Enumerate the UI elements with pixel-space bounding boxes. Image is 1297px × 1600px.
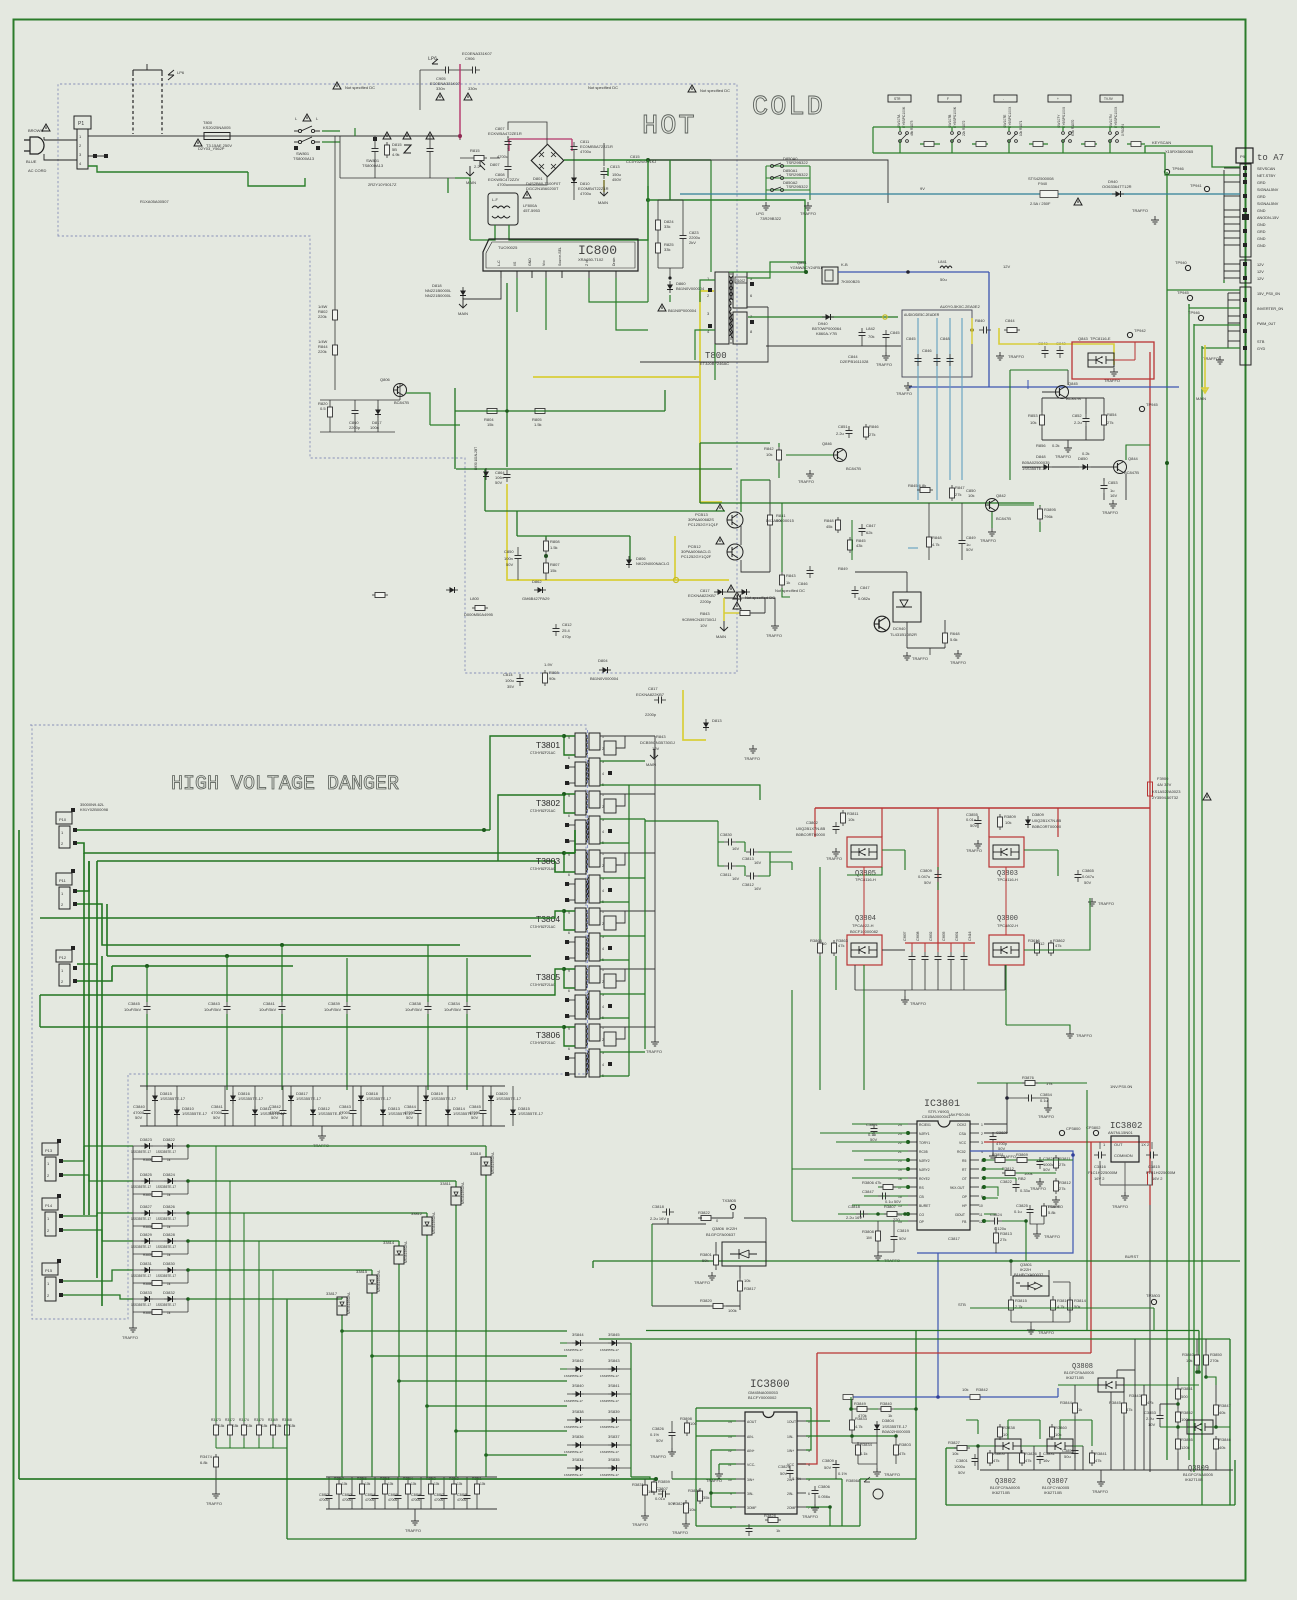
svg-text:GND: GND <box>1257 223 1266 227</box>
svg-text:C3835: C3835 <box>942 931 946 941</box>
svg-text:33815: 33815 <box>356 1269 368 1274</box>
svg-text:Q845: Q845 <box>1068 381 1079 386</box>
svg-text:33k: 33k <box>664 247 670 252</box>
svg-text:D848: D848 <box>1036 454 1046 459</box>
svg-text:P1: P1 <box>78 121 84 127</box>
svg-text:LP6: LP6 <box>177 70 185 75</box>
svg-text:NK22N000NACLG: NK22N000NACLG <box>636 561 669 566</box>
svg-text:TRAFFO: TRAFFO <box>632 1522 648 1527</box>
svg-text:1k: 1k <box>776 1528 780 1533</box>
svg-text:Vcc: Vcc <box>542 260 546 266</box>
svg-text:15k: 15k <box>247 1424 253 1428</box>
svg-text:R3807: R3807 <box>884 1204 897 1209</box>
svg-text:4700u: 4700u <box>411 1498 420 1502</box>
svg-text:TP941: TP941 <box>1190 183 1203 188</box>
svg-text:OUT: OUT <box>1114 1142 1123 1147</box>
svg-text:3S834: 3S834 <box>572 1457 584 1462</box>
svg-text:C814: C814 <box>503 672 513 677</box>
svg-text:50V: 50V <box>924 880 931 885</box>
svg-text:R3842: R3842 <box>976 1387 989 1392</box>
svg-text:R849: R849 <box>838 566 848 571</box>
svg-text:27k: 27k <box>1059 1186 1065 1191</box>
svg-text:HP: HP <box>962 1204 967 1208</box>
svg-text:MS3815S02VL: MS3815S02VL <box>491 1152 495 1174</box>
svg-text:GND: GND <box>1257 244 1266 248</box>
svg-text:PC1252GY1Q2F: PC1252GY1Q2F <box>681 554 712 559</box>
svg-text:AU0Y0-5K0C.2EA0E2: AU0Y0-5K0C.2EA0E2 <box>940 304 981 309</box>
svg-text:TPC8116-E: TPC8116-E <box>1090 336 1111 341</box>
svg-text:10k: 10k <box>388 1482 394 1486</box>
svg-text:120k: 120k <box>1181 1445 1190 1450</box>
svg-text:R847: R847 <box>955 485 965 490</box>
svg-text:27k: 27k <box>869 432 875 437</box>
svg-text:Drain: Drain <box>612 258 616 266</box>
svg-text:3OMF: 3OMF <box>747 1506 756 1510</box>
svg-text:TRAFFO: TRAFFO <box>1055 454 1071 459</box>
svg-text:T3806: T3806 <box>536 1030 560 1040</box>
svg-text:10k: 10k <box>342 1482 348 1486</box>
svg-text:DGC2N1B60200T: DGC2N1B60200T <box>526 186 559 191</box>
svg-text:1SS355TE-17: 1SS355TE-17 <box>366 1096 392 1101</box>
svg-text:ECKNA822KB7: ECKNA822KB7 <box>688 593 717 598</box>
svg-text:4700u: 4700u <box>497 182 508 187</box>
svg-text:10k: 10k <box>365 1482 371 1486</box>
svg-text:1SS355TE-17: 1SS355TE-17 <box>131 1150 151 1154</box>
svg-text:Q3806: Q3806 <box>712 1226 725 1231</box>
svg-text:25.4: 25.4 <box>562 628 571 633</box>
svg-text:45T-5953: 45T-5953 <box>523 208 541 213</box>
svg-text:R3813: R3813 <box>1000 1231 1013 1236</box>
svg-text:TRAFFO: TRAFFO <box>672 1530 688 1535</box>
svg-text:4: 4 <box>602 1005 604 1009</box>
svg-text:3S845: 3S845 <box>608 1332 620 1337</box>
svg-text:43k: 43k <box>856 543 862 548</box>
svg-text:C847: C847 <box>860 585 870 590</box>
svg-text:9CB99CN35730GJ: 9CB99CN35730GJ <box>682 617 716 622</box>
svg-text:R848: R848 <box>824 518 834 523</box>
svg-text:TRAFFO: TRAFFO <box>800 211 816 216</box>
svg-text:4700u: 4700u <box>580 191 591 196</box>
svg-text:PC1252GY1Q1F: PC1252GY1Q1F <box>688 522 719 527</box>
svg-text:Not specified DC: Not specified DC <box>700 88 730 93</box>
svg-text:C3865: C3865 <box>1082 868 1095 873</box>
svg-text:TPC8802-H: TPC8802-H <box>997 923 1018 928</box>
svg-text:10k: 10k <box>1005 820 1011 825</box>
svg-text:Not specified DC: Not specified DC <box>588 85 618 90</box>
svg-text:9V: 9V <box>920 186 925 191</box>
svg-text:10k: 10k <box>1186 1358 1192 1363</box>
svg-text:Z in: Z in <box>585 260 589 266</box>
svg-text:10k: 10k <box>411 1482 417 1486</box>
svg-text:R3828: R3828 <box>764 1513 777 1518</box>
svg-text:3S838: 3S838 <box>572 1409 584 1414</box>
svg-text:IK22H: IK22H <box>726 1226 737 1231</box>
svg-text:100n: 100n <box>370 425 379 430</box>
svg-text:4A/ 32V: 4A/ 32V <box>1157 782 1172 787</box>
svg-text:C3837: C3837 <box>903 931 907 941</box>
svg-text:47k: 47k <box>993 1458 999 1463</box>
svg-text:50u: 50u <box>1064 1454 1071 1459</box>
svg-text:33810: 33810 <box>470 1151 482 1156</box>
svg-text:P14: P14 <box>45 1203 53 1208</box>
svg-text:TRAFFO: TRAFFO <box>802 1514 818 1519</box>
svg-text:C3831: C3831 <box>1043 1451 1056 1456</box>
svg-text:T3804: T3804 <box>536 914 560 924</box>
svg-text:D3822: D3822 <box>163 1137 176 1142</box>
svg-text:TRAFFO: TRAFFO <box>1102 510 1118 515</box>
svg-text:L-C: L-C <box>497 260 501 266</box>
svg-text:Not specified DC: Not specified DC <box>745 595 775 600</box>
svg-text:D830 101N-2BT: D830 101N-2BT <box>474 447 478 470</box>
svg-text:SW107B: SW107B <box>948 114 952 128</box>
svg-text:AOUT: AOUT <box>747 1420 756 1424</box>
svg-text:Source-SEL: Source-SEL <box>558 247 562 266</box>
svg-text:1SS355TE-17: 1SS355TE-17 <box>156 1245 176 1249</box>
svg-text:73R29B322: 73R29B322 <box>760 216 782 221</box>
svg-text:0.33u: 0.33u <box>1020 1188 1030 1193</box>
svg-text:40k: 40k <box>1219 1445 1225 1450</box>
svg-text:11: 11 <box>979 1213 983 1217</box>
svg-text:15k: 15k <box>276 1424 282 1428</box>
svg-text:R3801: R3801 <box>700 1252 713 1257</box>
svg-text:6: 6 <box>808 1492 810 1496</box>
svg-text:CTJHY8ZF21AC: CTJHY8ZF21AC <box>530 925 556 929</box>
svg-text:R3895: R3895 <box>1044 507 1057 512</box>
svg-text:1SS355TE-17: 1SS355TE-17 <box>131 1185 151 1189</box>
svg-text:3S839: 3S839 <box>608 1409 620 1414</box>
svg-text:6.8k R1070: 6.8k R1070 <box>1071 119 1075 136</box>
svg-text:B0A02H000005: B0A02H000005 <box>882 1429 911 1434</box>
svg-text:1SS355TE-17: 1SS355TE-17 <box>131 1274 151 1278</box>
svg-text:6.8k: 6.8k <box>200 1460 208 1465</box>
svg-text:OP: OP <box>962 1195 968 1199</box>
svg-text:C3807: C3807 <box>656 1486 669 1491</box>
svg-text:R848: R848 <box>932 535 942 540</box>
svg-text:C848: C848 <box>940 336 950 341</box>
svg-text:COLD: COLD <box>752 93 825 123</box>
svg-text:NJRY2: NJRY2 <box>919 1159 930 1163</box>
svg-text:R853: R853 <box>1028 413 1038 418</box>
svg-text:2: 2 <box>981 1132 983 1136</box>
svg-text:1SS355TE-17: 1SS355TE-17 <box>518 1111 544 1116</box>
svg-text:C3801: C3801 <box>866 1122 879 1127</box>
svg-text:T3805: T3805 <box>536 972 560 982</box>
svg-text:SIGNAL5NV: SIGNAL5NV <box>1257 188 1279 192</box>
svg-text:270k: 270k <box>1210 1358 1219 1363</box>
svg-text:12V: 12V <box>1257 277 1264 281</box>
svg-text:10V: 10V <box>652 746 659 751</box>
svg-text:OT: OT <box>962 1177 967 1181</box>
svg-text:100k: 100k <box>728 1308 737 1313</box>
svg-text:TRAFFO: TRAFFO <box>122 1335 138 1340</box>
svg-text:B0BC0RT00000: B0BC0RT00000 <box>796 832 826 837</box>
svg-text:PWM_0UT: PWM_0UT <box>1257 322 1276 326</box>
svg-text:50V: 50V <box>471 1115 478 1120</box>
svg-text:TV-9V: TV-9V <box>1104 97 1114 101</box>
svg-text:35k: 35k <box>703 1495 709 1500</box>
svg-text:ECKW5A472ZE1R: ECKW5A472ZE1R <box>488 131 522 136</box>
svg-text:MAIN: MAIN <box>1196 396 1206 401</box>
svg-text:27k: 27k <box>1000 1237 1006 1242</box>
svg-text:6: 6 <box>568 931 570 935</box>
svg-text:R3852: R3852 <box>1181 1410 1194 1415</box>
svg-text:10k: 10k <box>744 1278 750 1283</box>
svg-text:GRD: GRD <box>1257 181 1266 185</box>
svg-text:P15: P15 <box>45 1268 53 1273</box>
svg-text:R3822: R3822 <box>698 1210 711 1215</box>
svg-text:16V: 16V <box>1110 493 1117 498</box>
svg-text:D3829: D3829 <box>140 1232 153 1237</box>
svg-text:50V: 50V <box>1084 880 1091 885</box>
svg-text:5.8k: 5.8k <box>1048 1210 1056 1215</box>
svg-text:6: 6 <box>568 873 570 877</box>
svg-text:1SS355TE-17: 1SS355TE-17 <box>564 1348 583 1352</box>
svg-text:2IN-: 2IN- <box>787 1492 793 1496</box>
svg-text:0 R1074: 0 R1074 <box>1121 124 1125 136</box>
svg-text:4700u: 4700u <box>365 1498 374 1502</box>
svg-text:U0Q2B1X7N.8B: U0Q2B1X7N.8B <box>796 826 825 831</box>
svg-text:4.9k: 4.9k <box>392 152 400 157</box>
svg-text:2.5A / 250F: 2.5A / 250F <box>1030 201 1051 206</box>
svg-text:R3864: R3864 <box>810 938 823 943</box>
svg-text:AC CORD: AC CORD <box>28 168 47 173</box>
svg-text:BURST: BURST <box>1125 1254 1139 1259</box>
svg-text:1SS355TE-17: 1SS355TE-17 <box>564 1374 583 1378</box>
svg-text:0.5: 0.5 <box>320 406 326 411</box>
svg-text:1SS355TE-17: 1SS355TE-17 <box>296 1096 322 1101</box>
svg-text:R3856A: R3856A <box>846 1478 861 1483</box>
svg-text:MAIN: MAIN <box>716 634 726 639</box>
svg-text:10uF/5kV: 10uF/5kV <box>204 1007 221 1012</box>
svg-text:-: - <box>1003 97 1004 101</box>
svg-text:CSA: CSA <box>959 1132 967 1136</box>
svg-text:F1C1H225000M: F1C1H225000M <box>1146 1170 1175 1175</box>
svg-text:C3820: C3820 <box>996 1130 1009 1135</box>
svg-text:10: 10 <box>979 1204 983 1208</box>
svg-text:4: 4 <box>808 1463 810 1467</box>
svg-text:R3841: R3841 <box>1095 1451 1108 1456</box>
svg-text:R3817: R3817 <box>744 1286 757 1291</box>
svg-text:L800: L800 <box>470 596 480 601</box>
svg-text:1SS355TE-17: 1SS355TE-17 <box>564 1450 583 1454</box>
svg-text:C3830: C3830 <box>720 832 733 837</box>
svg-text:TRAFFO: TRAFFO <box>694 1280 710 1285</box>
svg-text:0.1u: 0.1u <box>1040 1098 1048 1103</box>
svg-text:4: 4 <box>602 947 604 951</box>
svg-text:R3855: R3855 <box>1181 1437 1194 1442</box>
svg-text:KS1A522A0023: KS1A522A0023 <box>1152 789 1181 794</box>
svg-text:C3851: C3851 <box>1062 1448 1075 1453</box>
svg-text:R845 6.8k: R845 6.8k <box>908 483 926 488</box>
svg-text:EY6SPS100K: EY6SPS100K <box>953 106 957 128</box>
svg-text:OCK2: OCK2 <box>957 1123 966 1127</box>
svg-text:D862: D862 <box>532 579 542 584</box>
svg-text:R3806 47k: R3806 47k <box>862 1180 881 1185</box>
svg-text:TRAFFO: TRAFFO <box>950 660 966 665</box>
svg-text:Q844: Q844 <box>1128 456 1139 461</box>
svg-text:D813: D813 <box>712 718 722 723</box>
svg-text:TP3803: TP3803 <box>1146 1293 1161 1298</box>
svg-text:50V: 50V <box>958 1470 965 1475</box>
svg-text:R3836: R3836 <box>1025 1451 1038 1456</box>
svg-text:R846: R846 <box>869 424 879 429</box>
svg-text:C3826: C3826 <box>652 1426 665 1431</box>
svg-text:C853: C853 <box>1108 480 1118 485</box>
svg-text:R3840: R3840 <box>1182 1352 1195 1357</box>
svg-text:10k: 10k <box>766 452 772 457</box>
svg-text:15k: 15k <box>487 422 493 427</box>
svg-text:Q3804: Q3804 <box>855 915 876 923</box>
svg-text:R840: R840 <box>975 318 985 323</box>
svg-text:T3801: T3801 <box>536 740 560 750</box>
svg-text:D3830: D3830 <box>163 1261 176 1266</box>
svg-text:C3818: C3818 <box>652 1204 665 1209</box>
svg-text:Not specified DC: Not specified DC <box>775 588 805 593</box>
svg-text:10uF/5kV: 10uF/5kV <box>124 1007 141 1012</box>
svg-text:AUDIO/DE5C.2EADER: AUDIO/DE5C.2EADER <box>904 313 940 317</box>
svg-text:500: 500 <box>1181 1394 1188 1399</box>
svg-text:50V: 50V <box>870 1137 877 1142</box>
svg-text:C846: C846 <box>798 581 808 586</box>
svg-text:P12: P12 <box>59 955 67 960</box>
svg-text:C3853: C3853 <box>342 1493 352 1497</box>
svg-text:TRAFFO: TRAFFO <box>744 756 760 761</box>
svg-text:1SS355TE-17: 1SS355TE-17 <box>431 1096 457 1101</box>
svg-text:C844: C844 <box>1005 318 1015 323</box>
svg-text:CTJHY8ZF21AC: CTJHY8ZF21AC <box>530 867 556 871</box>
svg-text:B0BC0RT00000: B0BC0RT00000 <box>1032 824 1062 829</box>
svg-text:C3416: C3416 <box>968 931 972 941</box>
svg-text:1SS355TE-17: 1SS355TE-17 <box>160 1096 186 1101</box>
svg-text:STS42500008: STS42500008 <box>1028 176 1054 181</box>
svg-text:1SS355TE-17: 1SS355TE-17 <box>131 1245 151 1249</box>
svg-text:GRD: GRD <box>1257 230 1266 234</box>
svg-text:D3833: D3833 <box>140 1290 153 1295</box>
svg-text:C3857: C3857 <box>434 1493 444 1497</box>
svg-text:70k: 70k <box>868 334 874 339</box>
svg-text:R3800: R3800 <box>993 1451 1006 1456</box>
svg-text:50V: 50V <box>135 1115 142 1120</box>
svg-text:1SS355TE-17: 1SS355TE-17 <box>600 1348 619 1352</box>
svg-text:47k: 47k <box>1095 1458 1101 1463</box>
svg-text:SIGNAL5NV: SIGNAL5NV <box>1257 202 1279 206</box>
svg-text:10k: 10k <box>952 1451 958 1456</box>
svg-text:C846: C846 <box>922 348 932 353</box>
svg-text:1.5k: 1.5k <box>534 422 542 427</box>
svg-text:C3845: C3845 <box>128 1001 141 1006</box>
svg-text:4700u: 4700u <box>388 1498 397 1502</box>
svg-text:TP946: TP946 <box>1188 310 1201 315</box>
svg-text:TRAFFO: TRAFFO <box>884 1472 900 1477</box>
svg-text:D850A1: D850A1 <box>783 168 798 173</box>
svg-text:4.1k: 4.1k <box>860 1451 868 1456</box>
svg-text:D3831: D3831 <box>140 1261 153 1266</box>
svg-text:27k: 27k <box>955 492 961 497</box>
svg-text:T3802: T3802 <box>536 798 560 808</box>
svg-text:GND: GND <box>1257 209 1266 213</box>
svg-text:STB: STB <box>1257 340 1265 344</box>
svg-text:C3854: C3854 <box>365 1493 375 1497</box>
svg-text:100: 100 <box>690 1421 697 1426</box>
svg-text:0.01u: 0.01u <box>655 1496 665 1501</box>
svg-text:TRAFFO: TRAFFO <box>876 362 892 367</box>
svg-text:R3815: R3815 <box>1015 1298 1028 1303</box>
svg-text:B1GFCFA00637: B1GFCFA00637 <box>706 1232 736 1237</box>
svg-text:F3900: F3900 <box>1157 776 1169 781</box>
svg-text:TRAFFO: TRAFFO <box>1112 1204 1128 1209</box>
svg-text:TRAFFO: TRAFFO <box>1044 1234 1060 1239</box>
svg-text:R3860: R3860 <box>1055 1425 1068 1430</box>
svg-text:D3809: D3809 <box>1032 812 1045 817</box>
svg-text:C3802: C3802 <box>806 820 819 825</box>
svg-text:DC940: DC940 <box>893 626 906 631</box>
svg-text:XRA650-T102: XRA650-T102 <box>578 257 604 262</box>
svg-text:EY6SPS100X: EY6SPS100X <box>1062 106 1066 128</box>
svg-text:AIN+: AIN+ <box>747 1449 755 1453</box>
svg-text:1SS355TE-17: 1SS355TE-17 <box>156 1150 176 1154</box>
svg-text:R3840: R3840 <box>880 1401 893 1406</box>
svg-text:10k: 10k <box>689 1507 695 1512</box>
svg-text:C3824: C3824 <box>990 1212 1003 1217</box>
svg-text:15V_PS0_0N: 15V_PS0_0N <box>1257 292 1280 296</box>
svg-text:RB2: RB2 <box>1018 1176 1027 1181</box>
svg-text:3: 3 <box>981 1141 983 1145</box>
svg-text:TUC90025: TUC90025 <box>498 245 518 250</box>
svg-text:4: 4 <box>602 889 604 893</box>
svg-text:C3822: C3822 <box>1000 1179 1013 1184</box>
svg-text:C3839: C3839 <box>328 1001 341 1006</box>
svg-text:10V: 10V <box>700 623 707 628</box>
svg-text:4: 4 <box>602 830 604 834</box>
svg-text:47k: 47k <box>1126 1407 1132 1412</box>
svg-text:62k: 62k <box>866 530 872 535</box>
svg-text:SW107Y: SW107Y <box>1057 114 1061 128</box>
svg-text:C3829: C3829 <box>778 1464 791 1469</box>
svg-text:R3850: R3850 <box>1210 1352 1223 1357</box>
svg-text:C3838: C3838 <box>916 931 920 941</box>
svg-text:R3820: R3820 <box>700 1298 713 1303</box>
svg-text:0.047u: 0.047u <box>1082 874 1094 879</box>
svg-text:TRAFFO: TRAFFO <box>826 856 842 861</box>
svg-text:TRAFFO: TRAFFO <box>896 391 912 396</box>
svg-text:2200p: 2200p <box>645 712 657 717</box>
svg-text:NJRY1: NJRY1 <box>919 1132 930 1136</box>
svg-text:TRAFFO: TRAFFO <box>912 656 928 661</box>
svg-text:3S840: 3S840 <box>572 1383 584 1388</box>
svg-text:+: + <box>1057 97 1059 101</box>
svg-text:R3803: R3803 <box>899 1442 912 1447</box>
svg-text:4700u: 4700u <box>580 149 591 154</box>
svg-text:1SS355TE-17: 1SS355TE-17 <box>564 1473 583 1477</box>
svg-text:D807: D807 <box>490 162 500 167</box>
svg-text:10k: 10k <box>457 1482 463 1486</box>
svg-text:TL431B1DB2R: TL431B1DB2R <box>890 632 917 637</box>
svg-text:1M: 1M <box>866 1235 872 1240</box>
svg-text:33812: 33812 <box>411 1211 423 1216</box>
svg-text:17k: 17k <box>1046 1081 1052 1086</box>
svg-text:3100Z: 3100Z <box>736 279 745 283</box>
svg-text:R3814: R3814 <box>1074 1298 1087 1303</box>
svg-text:10k: 10k <box>968 493 974 498</box>
svg-text:R3838: R3838 <box>1003 1425 1016 1430</box>
svg-text:1SS355TE-17: 1SS355TE-17 <box>564 1425 583 1429</box>
svg-text:R842: R842 <box>764 446 774 451</box>
svg-text:3S837: 3S837 <box>608 1434 620 1439</box>
svg-text:BC847B: BC847B <box>846 466 861 471</box>
svg-text:R3845: R3845 <box>1109 1400 1122 1405</box>
svg-text:CTJHY8ZF21AC: CTJHY8ZF21AC <box>530 809 556 813</box>
svg-text:470p: 470p <box>562 634 572 639</box>
